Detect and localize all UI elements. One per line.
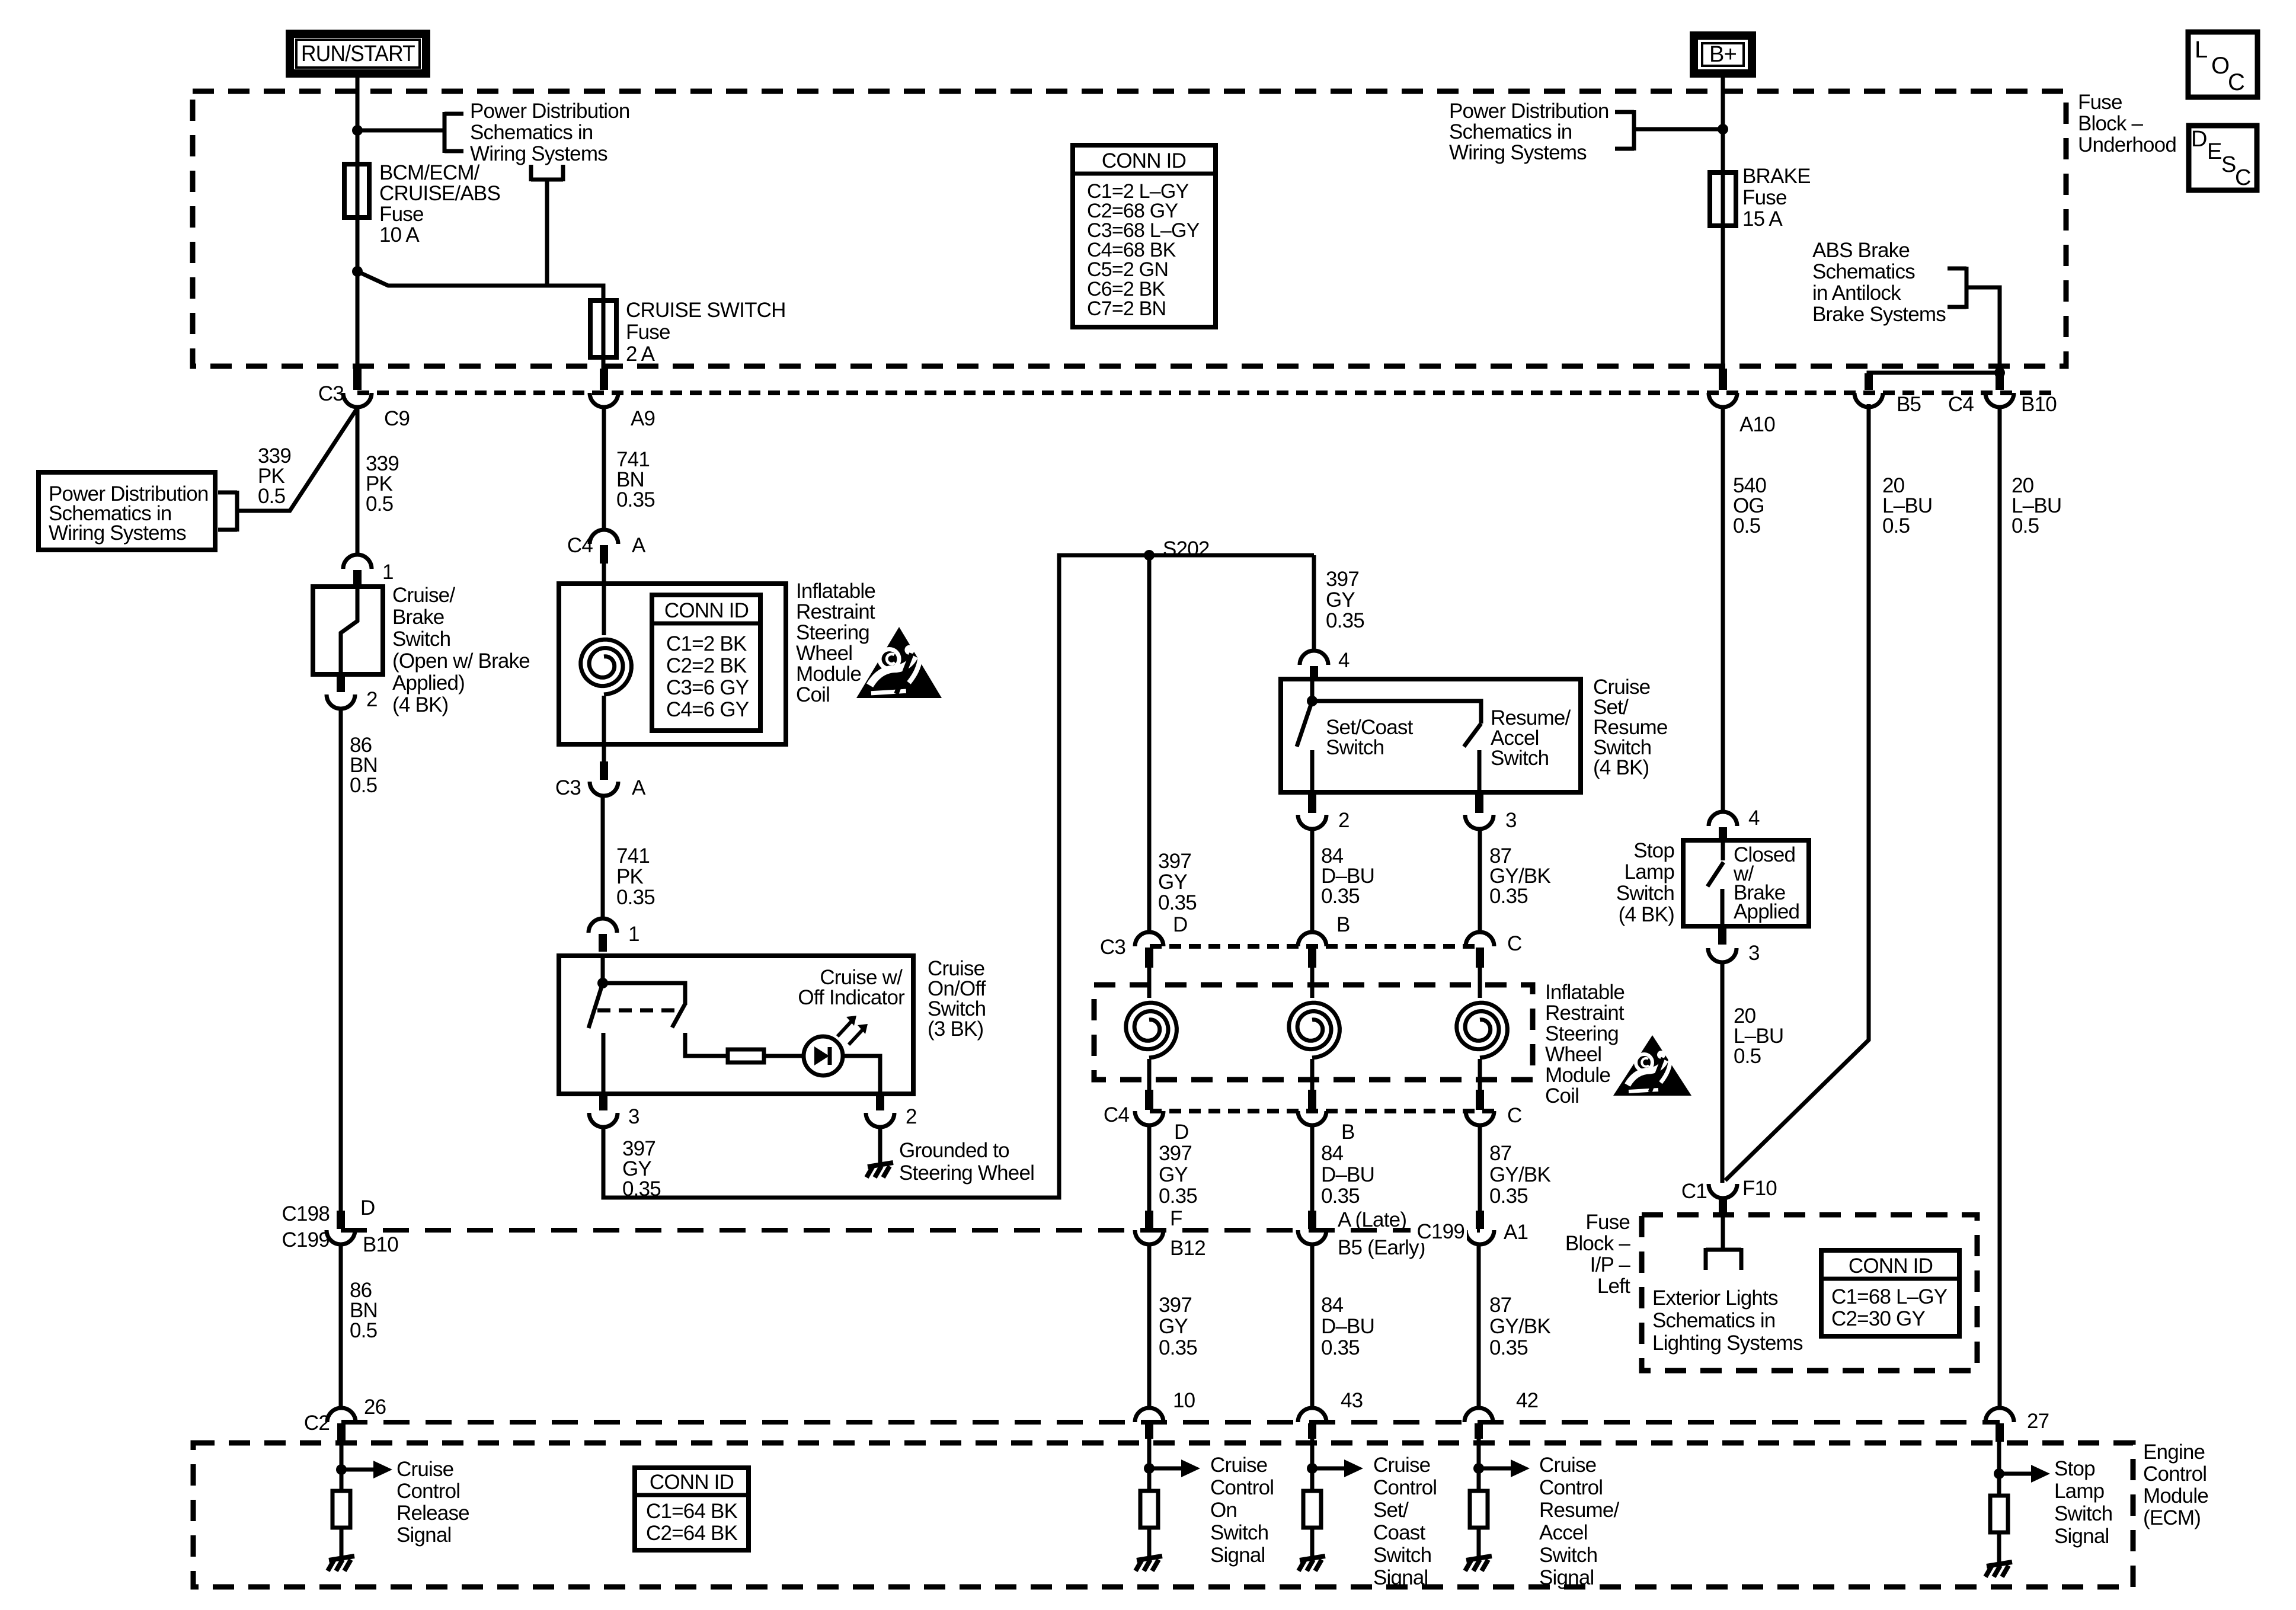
svg-text:Inflatable: Inflatable <box>796 580 875 603</box>
ECM connector row line <box>341 1420 2000 1425</box>
connector C1/F10 <box>1709 1184 1737 1198</box>
svg-text:0.35: 0.35 <box>616 886 655 909</box>
node stop lamp switch signal <box>1997 1440 2001 1496</box>
svg-text:Power Distribution: Power Distribution <box>1449 100 1609 123</box>
svg-text:(ECM): (ECM) <box>2143 1506 2201 1529</box>
node S202 <box>1144 550 1155 561</box>
svg-text:Fuse: Fuse <box>1742 186 1787 209</box>
coil L3 lower row <box>1457 1003 1508 1058</box>
svg-text:0.5: 0.5 <box>1882 514 1910 537</box>
svg-text:Switch: Switch <box>1326 736 1384 759</box>
node cruise control set/coast switch signal <box>1310 1439 1315 1491</box>
LED arrows <box>837 1020 852 1036</box>
svg-text:0.35: 0.35 <box>1489 1185 1528 1208</box>
ground steering wheel <box>878 1127 882 1164</box>
svg-text:CONN ID: CONN ID <box>664 599 749 622</box>
svg-text:10 A: 10 A <box>379 223 420 247</box>
svg-text:C2: C2 <box>304 1411 330 1435</box>
svg-text:Accel: Accel <box>1539 1521 1588 1544</box>
svg-text:Inflatable: Inflatable <box>1545 981 1625 1004</box>
svg-text:Block –: Block – <box>1565 1232 1631 1255</box>
svg-text:C198: C198 <box>282 1202 330 1225</box>
connector C4 pin C row2 <box>1476 1090 1484 1110</box>
resistor ECM set/coast signal <box>1303 1491 1321 1528</box>
connector C3/C9 pin <box>353 369 362 390</box>
svg-text:Wiring Systems: Wiring Systems <box>1449 141 1587 164</box>
svg-text:741: 741 <box>616 844 650 868</box>
svg-text:26: 26 <box>364 1395 386 1419</box>
switch S stop lamp switch <box>1683 840 1809 926</box>
connector pin 2 cruise brake switch <box>337 674 345 692</box>
svg-text:Control: Control <box>2143 1462 2207 1486</box>
fuse BCM/ECM/CRUISE/ABS 10 A <box>356 164 360 274</box>
svg-text:A: A <box>632 776 646 799</box>
connector F/B12 <box>1145 1211 1153 1229</box>
svg-text:10: 10 <box>1173 1389 1195 1412</box>
svg-text:Set/: Set/ <box>1373 1499 1409 1522</box>
svg-text:Schematics in: Schematics in <box>1652 1309 1775 1332</box>
svg-text:Coil: Coil <box>1545 1084 1579 1108</box>
inflatable restraint steering wheel module coil box <box>602 563 606 635</box>
power distribution reference bracket top <box>443 112 447 153</box>
svg-text:B10: B10 <box>2021 393 2057 416</box>
svg-text:A (Late): A (Late) <box>1338 1208 1406 1231</box>
svg-text:B+: B+ <box>1709 42 1737 67</box>
svg-text:Signal: Signal <box>2054 1525 2109 1548</box>
connector C4 pin D row2 <box>1145 1090 1153 1110</box>
svg-text:0.35: 0.35 <box>1158 891 1197 914</box>
coil L steering wheel module coil <box>581 639 632 694</box>
svg-text:B10: B10 <box>363 1233 398 1256</box>
coil L2 lower row <box>1289 1003 1340 1058</box>
connector ECM pin 10 <box>1135 1408 1163 1422</box>
svg-text:Lighting Systems: Lighting Systems <box>1652 1331 1803 1355</box>
svg-text:C2=30 GY: C2=30 GY <box>1831 1307 1925 1330</box>
svg-text:C7=2 BN: C7=2 BN <box>1087 297 1166 320</box>
wire RUN/START feed <box>356 73 360 166</box>
connector C198/C199 row line <box>341 1228 1480 1233</box>
svg-text:B: B <box>1336 913 1350 936</box>
svg-text:3: 3 <box>1505 809 1517 832</box>
svg-text:Switch: Switch <box>2054 1502 2112 1525</box>
junction ABS wire <box>1994 367 2005 378</box>
svg-text:Control: Control <box>1210 1476 1274 1499</box>
connector pin 3 resume/accel <box>1475 795 1483 813</box>
svg-text:Signal: Signal <box>396 1523 452 1547</box>
connector C4/B10 pin <box>1996 373 2004 390</box>
svg-text:0.5: 0.5 <box>2012 514 2039 537</box>
CONN ID table fuse block IP <box>1821 1250 1959 1336</box>
wire A to ECM 43 <box>1310 1244 1315 1409</box>
svg-text:Wiring Systems: Wiring Systems <box>49 521 186 545</box>
CONN ID table ECM <box>635 1468 749 1550</box>
svg-text:0.35: 0.35 <box>1321 885 1360 908</box>
svg-text:Off Indicator: Off Indicator <box>798 986 905 1009</box>
coil box dashed inflatable restraint lower <box>1147 968 1152 998</box>
svg-text:CRUISE SWITCH: CRUISE SWITCH <box>626 299 786 322</box>
svg-text:in Antilock: in Antilock <box>1812 281 1901 305</box>
connector pin 2 on/off switch <box>876 1094 884 1110</box>
svg-text:0.35: 0.35 <box>616 488 655 511</box>
svg-text:1: 1 <box>382 561 394 584</box>
set/coast switch internals <box>1310 679 1315 701</box>
wire fork to cruise switch fuse elbow <box>545 180 549 286</box>
svg-text:Control: Control <box>1539 1476 1603 1499</box>
node cruise control on switch signal <box>1147 1439 1152 1491</box>
connector C3 pin D row1 <box>1135 932 1163 946</box>
fuse BRAKE 15 A <box>1721 173 1725 226</box>
wire B10 to ECM 27 <box>1998 407 2002 1409</box>
power distribution reference bracket right <box>1632 110 1636 151</box>
wire row2 C down to A1 <box>1478 1125 1482 1212</box>
wire into fuse block IP <box>1721 1217 1725 1250</box>
power feed tag RUN/START <box>290 34 426 73</box>
svg-text:(3 BK): (3 BK) <box>928 1017 983 1041</box>
svg-text:(4 BK): (4 BK) <box>1593 756 1649 779</box>
off-page fork exterior lights <box>1706 1248 1741 1252</box>
svg-text:84: 84 <box>1321 1142 1344 1165</box>
svg-text:Wheel: Wheel <box>1545 1043 1601 1066</box>
ground ECM on switch signal <box>1137 1556 1162 1560</box>
svg-text:Wheel: Wheel <box>796 642 852 665</box>
svg-text:C199: C199 <box>282 1228 330 1251</box>
power distribution box left <box>39 472 215 550</box>
svg-text:Signal: Signal <box>1210 1544 1265 1567</box>
wire set/coast pin2 to row1 B <box>1310 829 1315 933</box>
svg-text:GY: GY <box>1158 870 1187 894</box>
svg-text:GY: GY <box>1159 1163 1188 1186</box>
svg-text:0.35: 0.35 <box>1326 609 1364 632</box>
svg-text:Control: Control <box>396 1480 460 1503</box>
svg-text:Wiring Systems: Wiring Systems <box>470 142 607 165</box>
connector A9 pin <box>600 369 608 390</box>
svg-text:C: C <box>1507 932 1521 955</box>
connector A late / B5 early <box>1308 1211 1316 1229</box>
svg-text:0.35: 0.35 <box>1489 1336 1528 1359</box>
ABS reference bracket <box>1965 267 1969 309</box>
wire to power distribution reference <box>357 129 443 133</box>
svg-text:D: D <box>1173 913 1187 936</box>
svg-text:GY/BK: GY/BK <box>1489 1315 1550 1338</box>
warning triangle airbag lower <box>1613 1035 1691 1096</box>
svg-text:43: 43 <box>1341 1389 1363 1412</box>
svg-text:C9: C9 <box>384 407 410 430</box>
svg-text:Left: Left <box>1597 1275 1630 1298</box>
svg-text:397: 397 <box>1158 850 1191 873</box>
svg-text:0.5: 0.5 <box>366 492 393 516</box>
svg-text:Lamp: Lamp <box>1625 860 1674 884</box>
connector C2 pin 26 <box>327 1408 356 1422</box>
connector A10 pin <box>1719 369 1727 390</box>
connector C3 pin C row1 <box>1466 932 1494 946</box>
svg-text:Switch: Switch <box>1539 1544 1597 1567</box>
node cruise control resume/accel switch signal <box>1477 1439 1481 1491</box>
svg-text:Applied): Applied) <box>392 671 465 694</box>
on/off switch internal wiring <box>601 956 605 983</box>
svg-text:Cruise: Cruise <box>1210 1454 1267 1477</box>
svg-text:D: D <box>360 1196 375 1219</box>
svg-text:84: 84 <box>1321 1294 1344 1317</box>
DESC reference box <box>2189 126 2257 190</box>
LED cruise off indicator <box>804 1036 843 1076</box>
svg-text:A9: A9 <box>631 407 655 430</box>
wire 86 BN 0.5 upper <box>339 709 343 1212</box>
warning triangle airbag top <box>856 627 942 698</box>
ground ECM resume/accel signal <box>1466 1556 1492 1560</box>
svg-text:0.35: 0.35 <box>1159 1185 1197 1208</box>
svg-text:Lamp: Lamp <box>2054 1480 2104 1503</box>
svg-text:27: 27 <box>2027 1410 2049 1433</box>
svg-text:Power Distribution: Power Distribution <box>470 100 630 123</box>
svg-text:C1=64 BK: C1=64 BK <box>646 1500 738 1523</box>
svg-text:87: 87 <box>1489 1294 1511 1317</box>
svg-text:Fuse: Fuse <box>1585 1211 1630 1234</box>
svg-text:Block –: Block – <box>2078 112 2144 135</box>
svg-text:A: A <box>632 534 646 557</box>
wire F to ECM 10 <box>1147 1244 1152 1409</box>
svg-text:B: B <box>1341 1121 1355 1144</box>
connector C3 pin A coil module <box>600 761 608 780</box>
svg-text:GY/BK: GY/BK <box>1489 1163 1550 1186</box>
svg-text:BCM/ECM/: BCM/ECM/ <box>379 161 480 184</box>
svg-text:E: E <box>2207 139 2222 164</box>
svg-text:0.35: 0.35 <box>1321 1185 1360 1208</box>
resume/accel switch internals <box>1312 701 1481 724</box>
svg-text:F: F <box>1170 1207 1182 1230</box>
wire BRAKE fuse to A10 <box>1721 226 1725 390</box>
svg-text:RUN/START: RUN/START <box>301 41 415 66</box>
svg-text:C3: C3 <box>555 776 581 799</box>
fuse block underhood dashed box <box>193 91 2066 366</box>
svg-text:C3: C3 <box>318 382 344 405</box>
svg-text:CONN ID: CONN ID <box>1102 149 1186 172</box>
wire resume pin3 to row1 C <box>1478 829 1482 933</box>
svg-text:87: 87 <box>1489 1142 1511 1165</box>
power distribution reference fork under text <box>531 178 563 182</box>
connector C3 pin B row1 <box>1298 932 1326 946</box>
svg-text:Underhood: Underhood <box>2078 133 2176 156</box>
svg-text:Release: Release <box>396 1502 469 1525</box>
svg-text:Applied: Applied <box>1734 900 1799 923</box>
svg-text:Control: Control <box>1373 1476 1437 1499</box>
svg-text:Grounded to: Grounded to <box>899 1139 1009 1162</box>
svg-text:C1=68 L–GY: C1=68 L–GY <box>1831 1285 1948 1308</box>
svg-text:Module: Module <box>1545 1064 1610 1087</box>
connector C4 pin B row2 <box>1308 1090 1316 1110</box>
svg-text:15 A: 15 A <box>1742 207 1783 231</box>
svg-text:PK: PK <box>616 865 644 888</box>
svg-text:(4 BK): (4 BK) <box>392 693 448 716</box>
svg-text:Restraint: Restraint <box>1545 1001 1625 1025</box>
svg-text:Switch: Switch <box>1616 882 1674 905</box>
svg-text:1: 1 <box>628 923 639 946</box>
resistor ECM resume/accel signal <box>1470 1491 1488 1528</box>
svg-text:Steering: Steering <box>1545 1022 1619 1045</box>
svg-text:0.5: 0.5 <box>258 485 285 508</box>
fuse block I/P left dashed box <box>1642 1215 1977 1371</box>
fuse CRUISE SWITCH 2 A <box>602 286 606 389</box>
CONN ID table coil module <box>652 595 760 731</box>
svg-text:Stop: Stop <box>1633 839 1674 862</box>
connector pin 3 on/off switch <box>599 1094 607 1110</box>
junction to cruise switch fuse <box>352 266 363 277</box>
wire A10 to stop lamp switch <box>1721 407 1725 812</box>
svg-text:3: 3 <box>628 1105 639 1128</box>
resistor ECM on switch signal <box>1140 1491 1158 1528</box>
resistor indicator <box>728 1049 764 1062</box>
svg-text:C3: C3 <box>1100 936 1125 959</box>
svg-text:C4: C4 <box>1104 1103 1129 1126</box>
connector row1 C3 coil connectors <box>1150 944 1482 949</box>
svg-text:L: L <box>2195 37 2207 63</box>
wire to B5 <box>1869 373 2000 390</box>
switch S cruise set/resume switch box <box>1281 679 1581 792</box>
svg-text:Schematics in: Schematics in <box>470 121 593 144</box>
svg-text:397: 397 <box>1326 568 1359 591</box>
switch S cruise/brake switch <box>313 587 383 674</box>
svg-text:GY: GY <box>1326 588 1355 612</box>
svg-text:Steering Wheel: Steering Wheel <box>899 1161 1034 1185</box>
svg-text:C1=2 BK: C1=2 BK <box>666 632 747 655</box>
node cruise control release signal <box>340 1440 344 1491</box>
wire ABS reference to B5/B10 <box>1966 287 2000 390</box>
wire A9 to C4-A <box>602 407 606 530</box>
wire C3-A to on/off switch pin 1 <box>601 795 605 918</box>
engine control module ECM dashed box <box>193 1443 2133 1587</box>
wire row2 D down to F <box>1147 1125 1152 1212</box>
svg-text:Coil: Coil <box>796 683 830 706</box>
svg-text:C2=2 BK: C2=2 BK <box>666 654 747 677</box>
svg-text:Cruise: Cruise <box>396 1458 453 1481</box>
svg-text:Schematics in: Schematics in <box>1449 120 1572 143</box>
connector B5 pin <box>1865 373 1873 390</box>
svg-text:0.5: 0.5 <box>1734 1045 1761 1068</box>
ground ECM stop lamp signal <box>1987 1562 2012 1566</box>
svg-text:D–BU: D–BU <box>1321 1315 1374 1338</box>
svg-text:0.35: 0.35 <box>1489 885 1528 908</box>
svg-text:C4=6 GY: C4=6 GY <box>666 698 749 721</box>
svg-text:Brake Systems: Brake Systems <box>1812 303 1946 326</box>
svg-text:2: 2 <box>906 1105 917 1128</box>
svg-text:(4 BK): (4 BK) <box>1619 903 1674 926</box>
svg-text:397: 397 <box>1159 1294 1192 1317</box>
svg-text:I/P –: I/P – <box>1590 1253 1631 1276</box>
svg-text:O: O <box>2211 53 2229 79</box>
connector ECM pin 42 <box>1464 1408 1493 1422</box>
wire 339 PK 0.5 to power distribution <box>237 409 357 511</box>
ground ECM release signal <box>329 1556 354 1560</box>
connector C4 pin A coil module <box>590 530 618 544</box>
svg-text:42: 42 <box>1516 1389 1538 1412</box>
svg-text:D–BU: D–BU <box>1321 1163 1374 1186</box>
switch S cruise on/off switch box <box>559 956 913 1094</box>
svg-text:CRUISE/ABS: CRUISE/ABS <box>379 182 500 205</box>
svg-text:C4: C4 <box>567 534 593 557</box>
connector row2 C4 coil connectors <box>1150 1109 1495 1113</box>
svg-text:Restraint: Restraint <box>796 600 875 623</box>
svg-text:Switch: Switch <box>1373 1544 1431 1567</box>
svg-text:2 A: 2 A <box>626 343 655 366</box>
svg-text:Signal: Signal <box>1539 1566 1594 1589</box>
svg-text:4: 4 <box>1748 806 1760 830</box>
connector row fuse block underhood to harness <box>357 391 2058 395</box>
svg-text:Module: Module <box>2143 1484 2208 1507</box>
svg-text:Schematics: Schematics <box>1812 260 1915 283</box>
svg-text:B12: B12 <box>1170 1237 1205 1260</box>
svg-text:A10: A10 <box>1739 413 1775 436</box>
svg-text:0.35: 0.35 <box>1321 1336 1360 1359</box>
svg-text:D: D <box>2191 127 2207 152</box>
svg-text:On: On <box>1210 1499 1237 1522</box>
svg-text:Resume/: Resume/ <box>1539 1499 1620 1522</box>
svg-text:2: 2 <box>1338 809 1350 832</box>
svg-text:Fuse: Fuse <box>379 203 424 226</box>
svg-text:4: 4 <box>1338 649 1350 672</box>
svg-text:S: S <box>2221 152 2236 177</box>
svg-text:Module: Module <box>796 662 861 686</box>
power feed tag B+ <box>1694 36 1752 73</box>
svg-text:2: 2 <box>366 688 378 711</box>
wire B+ feed <box>1721 73 1725 173</box>
connector pin 2 set/coast <box>1308 795 1316 813</box>
connector pin 1 cruise on/off switch <box>589 918 617 933</box>
svg-text:0.5: 0.5 <box>350 774 377 797</box>
svg-text:Switch: Switch <box>1210 1521 1268 1544</box>
svg-text:C: C <box>2228 69 2244 95</box>
resistor ECM release signal <box>332 1491 350 1528</box>
connector C199 A1 <box>1476 1211 1484 1229</box>
svg-text:C4: C4 <box>1948 393 1974 416</box>
svg-text:Cruise: Cruise <box>1539 1454 1596 1477</box>
svg-text:CONN ID: CONN ID <box>1849 1254 1933 1278</box>
svg-text:GY: GY <box>1159 1315 1188 1338</box>
svg-text:Exterior Lights: Exterior Lights <box>1652 1286 1778 1310</box>
wire S202 right branch to set/coast pin4 <box>1312 555 1316 651</box>
svg-text:B5: B5 <box>1897 393 1921 416</box>
connector pin 3 stop lamp switch <box>1718 926 1726 945</box>
svg-text:F10: F10 <box>1742 1177 1777 1200</box>
svg-text:Brake: Brake <box>392 606 444 629</box>
svg-text:Engine: Engine <box>2143 1441 2205 1464</box>
wire 86 BN 0.5 lower <box>339 1244 343 1409</box>
wire B5 to C1/F10 diagonal <box>1725 404 1869 1180</box>
connector pin 4 stop lamp switch <box>1709 812 1737 826</box>
wire row2 B down to A <box>1310 1125 1315 1212</box>
svg-text:C3=6 GY: C3=6 GY <box>666 676 749 699</box>
svg-text:C2=64 BK: C2=64 BK <box>646 1522 738 1545</box>
LOC reference box <box>2188 32 2257 97</box>
wire stop lamp to C1/F10 <box>1721 962 1725 1183</box>
svg-text:C: C <box>1507 1104 1521 1127</box>
svg-text:S202: S202 <box>1163 537 1210 561</box>
connector C198/C199 D/B10 <box>337 1211 345 1229</box>
svg-text:Fuse: Fuse <box>626 321 670 344</box>
svg-text:0.5: 0.5 <box>1733 514 1760 537</box>
coil L1 lower row <box>1126 1003 1177 1058</box>
wire to cruise switch fuse <box>357 271 603 300</box>
svg-text:Signal: Signal <box>1373 1566 1428 1589</box>
svg-text:Coast: Coast <box>1373 1521 1426 1544</box>
CONN ID table fuse block underhood <box>1073 145 1216 327</box>
wire on/off pin3 to S202 riser <box>603 555 1314 1198</box>
svg-text:C199: C199 <box>1417 1220 1464 1243</box>
connector pin 4 set/coast <box>1300 651 1328 665</box>
junction B+ feed <box>1718 124 1728 135</box>
connector pin 1 cruise brake switch <box>343 555 372 569</box>
svg-text:3: 3 <box>1748 942 1760 965</box>
wire A1 to ECM 42 <box>1477 1244 1481 1409</box>
svg-text:Cruise/: Cruise/ <box>392 584 455 607</box>
